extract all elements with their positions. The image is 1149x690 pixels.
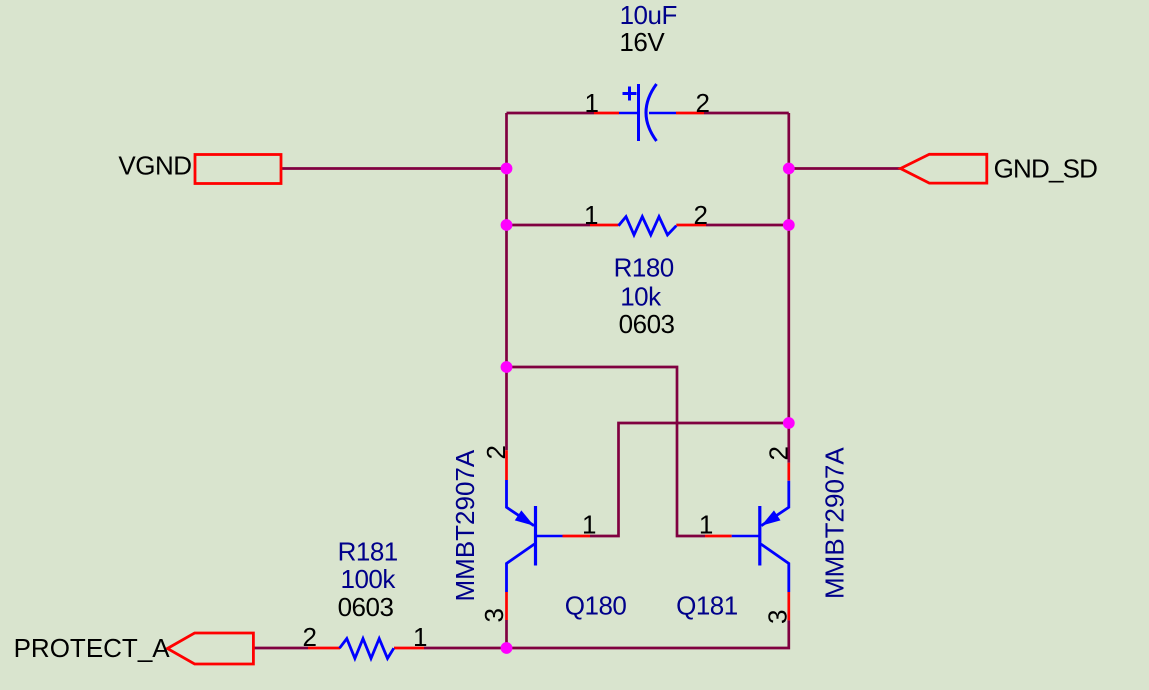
resistor R180 zigzag bbox=[619, 217, 677, 235]
svg-text:1: 1 bbox=[582, 510, 596, 540]
wire top-left to capacitor bbox=[507, 112, 595, 115]
junction at Q180 collector / left rail bbox=[501, 361, 513, 373]
svg-text:2: 2 bbox=[303, 622, 317, 652]
wire Q180 collector node to Q181 base bbox=[507, 367, 706, 536]
junction at GND_SD / right rail bbox=[783, 163, 795, 175]
pin 2 R181 (red) bbox=[308, 647, 340, 650]
svg-text:3: 3 bbox=[479, 608, 509, 622]
svg-text:2: 2 bbox=[694, 200, 708, 230]
junction at R180 pin1 / left rail bbox=[501, 219, 513, 231]
pin 3 Q180 (red) bbox=[505, 592, 508, 620]
svg-text:1: 1 bbox=[584, 200, 598, 230]
svg-text:1: 1 bbox=[413, 622, 427, 652]
svg-text:3: 3 bbox=[763, 610, 793, 624]
svg-text:2: 2 bbox=[696, 88, 710, 118]
wire VGND to left rail bbox=[281, 167, 507, 170]
wire capacitor to top-right bbox=[704, 112, 789, 115]
transistor Q180 (PNP MMBT2907A) bbox=[507, 480, 563, 592]
pin 2 R180 (red) bbox=[676, 224, 706, 227]
junction at Q181 collector / right rail bbox=[783, 417, 795, 429]
pin 2 Q180 (red) bbox=[505, 450, 508, 480]
svg-text:0603: 0603 bbox=[619, 309, 675, 339]
junction at R180 pin2 / right rail bbox=[783, 219, 795, 231]
wire right vertical rail bbox=[787, 113, 790, 463]
wire right rail to GND_SD port bbox=[789, 167, 901, 170]
svg-text:0603: 0603 bbox=[338, 592, 394, 622]
Q180 emitter arrow bbox=[515, 510, 537, 530]
wire Q180 pin3 to bottom node bbox=[505, 620, 508, 648]
svg-text:PROTECT_A: PROTECT_A bbox=[14, 633, 171, 663]
port VGND bbox=[195, 155, 281, 184]
port PROTECT_A bbox=[167, 633, 253, 664]
svg-text:16V: 16V bbox=[619, 27, 665, 57]
svg-text:GND_SD: GND_SD bbox=[994, 154, 1098, 184]
resistor R181 zigzag bbox=[340, 639, 394, 659]
svg-text:10k: 10k bbox=[620, 281, 662, 311]
svg-text:100k: 100k bbox=[341, 564, 397, 594]
pin 1 capacitor (red) bbox=[594, 112, 619, 115]
pin 1 Q180 (red) bbox=[563, 535, 591, 538]
pin 1 Q181 (red) bbox=[705, 535, 732, 538]
svg-text:VGND: VGND bbox=[118, 151, 191, 181]
transistor Q181 (PNP MMBT2907A) bbox=[732, 481, 789, 592]
junction at VGND / left rail bbox=[501, 163, 513, 175]
svg-text:1: 1 bbox=[585, 88, 599, 118]
svg-text:MMBT2907A: MMBT2907A bbox=[820, 447, 850, 599]
pin 1 R181 (red) bbox=[394, 647, 424, 650]
wire R180 pin2 to right rail bbox=[706, 224, 789, 227]
junction at bottom node bbox=[501, 642, 513, 654]
svg-text:Q181: Q181 bbox=[676, 591, 738, 621]
pin 2 Q181 (red) bbox=[787, 463, 790, 481]
wire Q181 collector node to Q180 base bbox=[590, 423, 789, 536]
wire PROTECT_A to R181 pin2 bbox=[254, 647, 309, 650]
Q181 emitter arrow bbox=[758, 510, 780, 530]
capacitor C (10uF 16V) symbol bbox=[619, 84, 676, 141]
pin 3 Q181 (red) bbox=[787, 592, 790, 620]
svg-text:2: 2 bbox=[481, 445, 511, 459]
pin 1 R180 (red) bbox=[590, 224, 619, 227]
svg-text:Q180: Q180 bbox=[565, 591, 627, 621]
wire left vertical rail bbox=[505, 113, 508, 450]
wire R181 pin1 to bottom node and up to Q181 pin3 bbox=[424, 620, 789, 648]
svg-text:R180: R180 bbox=[614, 253, 674, 283]
port GND_SD bbox=[901, 154, 987, 183]
svg-text:2: 2 bbox=[764, 446, 794, 460]
svg-text:R181: R181 bbox=[338, 537, 398, 567]
svg-text:MMBT2907A: MMBT2907A bbox=[450, 449, 480, 601]
svg-text:10uF: 10uF bbox=[620, 0, 677, 30]
pin 2 capacitor (red) bbox=[676, 112, 704, 115]
svg-text:1: 1 bbox=[699, 510, 713, 540]
wire left rail to R180 pin1 bbox=[507, 224, 591, 227]
